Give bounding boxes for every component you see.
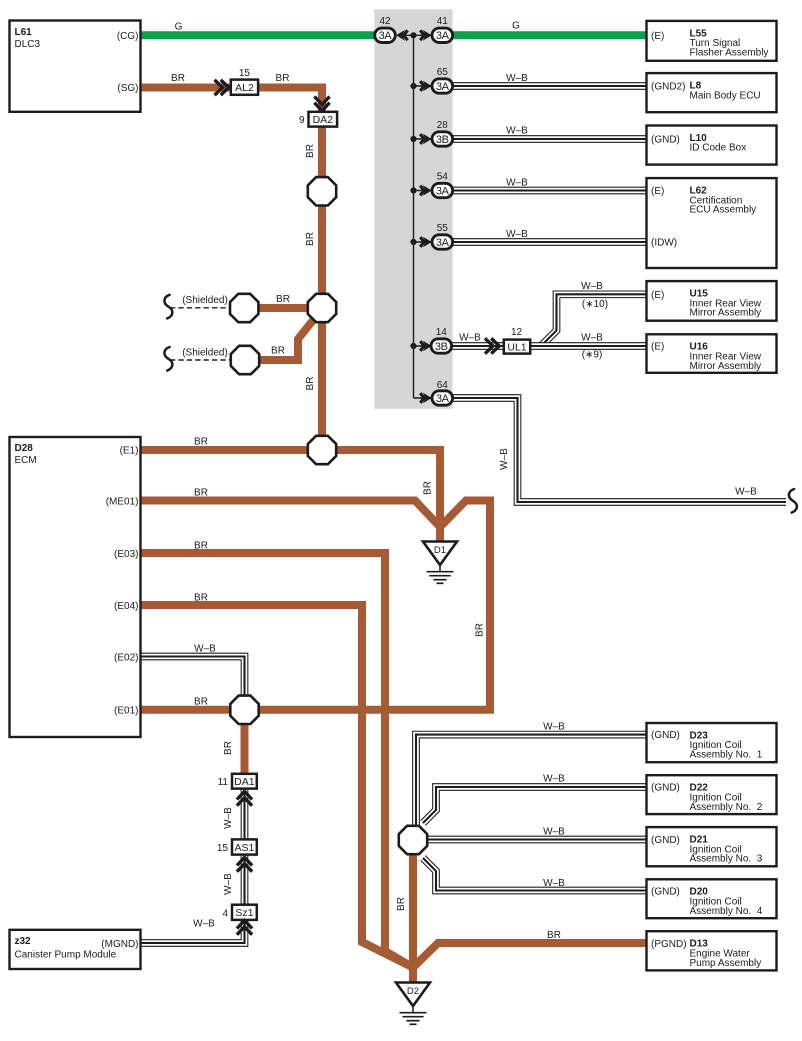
arrow into connector at y=346: [423, 341, 432, 352]
svg-text:W–B: W–B: [735, 487, 757, 498]
wire BR stub into ground D1: [436, 524, 444, 543]
svg-text:(E): (E): [651, 342, 664, 353]
svg-text:DLC3: DLC3: [15, 39, 41, 50]
chevrons into UL1: [485, 338, 493, 353]
svg-text:(MGND): (MGND): [101, 939, 138, 950]
wire BR ignition splice to ground D2: [409, 852, 417, 983]
component D20 Ignition Coil Assembly No.4: [647, 879, 777, 918]
svg-text:(GND): (GND): [651, 835, 680, 846]
arrow into connector at y=139: [423, 134, 432, 145]
connector 65 3A: [432, 79, 453, 93]
svg-text:BR: BR: [396, 897, 407, 911]
component U16 Inner Rear View Mirror Assembly: [647, 334, 777, 373]
shield terminal 1: [230, 294, 258, 322]
splice J5 ignition coils: [399, 826, 427, 854]
svg-text:BR: BR: [276, 73, 290, 84]
svg-text:W–B: W–B: [506, 229, 528, 240]
svg-text:Assembly No. 4: Assembly No. 4: [690, 906, 763, 917]
svg-text:W–B: W–B: [499, 448, 510, 470]
ground D2: [396, 983, 430, 1007]
svg-text:14: 14: [436, 327, 448, 338]
svg-text:(E): (E): [651, 31, 664, 42]
svg-text:(∗9): (∗9): [582, 350, 603, 361]
svg-text:3A: 3A: [436, 237, 450, 249]
svg-text:W–B: W–B: [193, 919, 215, 930]
svg-text:BR: BR: [276, 294, 290, 305]
connector 54 3A: [432, 183, 453, 197]
wire W-B ignition splice to D22: [423, 787, 648, 823]
svg-text:Mirror Assembly: Mirror Assembly: [690, 361, 762, 372]
svg-text:BR: BR: [423, 481, 434, 495]
connector DA2 pin 9: [309, 112, 338, 127]
svg-text:(Shielded): (Shielded): [182, 348, 228, 359]
wire W-B ignition splice to D23: [416, 735, 648, 828]
svg-text:(GND): (GND): [651, 730, 680, 741]
wire W-B ignition splice to D20: [423, 858, 648, 891]
svg-text:BR: BR: [194, 437, 208, 448]
wire BR E01 splice to DA1: [241, 722, 249, 776]
svg-text:L61: L61: [15, 27, 33, 38]
svg-text:(E): (E): [651, 186, 664, 197]
svg-text:DA2: DA2: [313, 114, 334, 126]
arrow into connector at y=398: [423, 393, 432, 404]
wire W-B ECM E02 to E01 splice: [139, 657, 245, 699]
svg-text:W–B: W–B: [581, 333, 603, 344]
component L10 ID Code Box: [647, 126, 777, 165]
wire BR from DLC3 SG via AL2 to DA2: [139, 88, 322, 114]
svg-text:ECU Assembly: ECU Assembly: [690, 205, 757, 216]
svg-text:(GND): (GND): [651, 887, 680, 898]
wire G from connector 41 to L55: [450, 31, 648, 39]
svg-text:3A: 3A: [436, 185, 450, 197]
svg-text:(Shielded): (Shielded): [182, 295, 228, 306]
wire BR splice J2 to splice J3: [318, 320, 326, 440]
connector 14 3B: [431, 339, 452, 353]
splice J3 on E1: [308, 436, 336, 464]
chevrons into Sz1: [237, 921, 252, 929]
svg-text:15: 15: [217, 843, 229, 854]
svg-text:BR: BR: [194, 541, 208, 552]
connector 42 3A: [375, 28, 396, 42]
svg-text:BR: BR: [305, 232, 316, 246]
wire W-B ignition splice to D21: [426, 836, 648, 844]
svg-text:(E03): (E03): [114, 549, 138, 560]
chevrons into DA2: [314, 97, 329, 105]
svg-text:55: 55: [437, 223, 449, 234]
svg-text:42: 42: [379, 16, 391, 27]
svg-text:64: 64: [437, 380, 449, 391]
wire BR shielded branch 2: [256, 319, 314, 360]
arrow into connector at y=86: [423, 81, 432, 92]
svg-text:BR: BR: [547, 930, 561, 941]
svg-text:3B: 3B: [435, 341, 448, 353]
svg-text:Pump Assembly: Pump Assembly: [690, 958, 762, 969]
connector DA1 pin 11: [232, 774, 257, 789]
svg-text:BR: BR: [475, 623, 486, 637]
splice J2: [308, 294, 336, 322]
component U15 Inner Rear View Mirror Assembly: [647, 281, 777, 321]
svg-text:BR: BR: [194, 697, 208, 708]
svg-text:Assembly No. 3: Assembly No. 3: [690, 854, 763, 865]
wire BR ECM E04 to ground D2: [139, 605, 413, 968]
svg-text:W–B: W–B: [506, 73, 528, 84]
wire BR ECM ME01 to ground D1 and via E01 loop: [139, 501, 490, 710]
svg-text:3A: 3A: [436, 81, 450, 93]
wire BR ECM E1 to ground D1: [139, 450, 440, 528]
svg-text:W–B: W–B: [581, 281, 603, 292]
component z32 Canister Pump Module: [10, 930, 141, 969]
shield terminal 2: [231, 346, 259, 374]
svg-text:G: G: [175, 22, 183, 33]
splice J4 on E01: [230, 696, 258, 724]
connector Sz1 pin 4: [232, 905, 257, 920]
connector AL2 pin 15: [231, 80, 258, 95]
continuation squiggle shielded 2: [164, 347, 172, 371]
svg-text:(∗10): (∗10): [582, 299, 608, 310]
svg-text:AL2: AL2: [235, 82, 254, 94]
svg-text:BR: BR: [194, 488, 208, 499]
wire W-B connector 14 via UL1 to U16: [450, 342, 648, 350]
component L8 Main Body ECU: [647, 73, 777, 112]
wire BR splice J1 to splice J2: [318, 203, 326, 297]
svg-text:BR: BR: [171, 73, 185, 84]
connector 55 3A: [432, 235, 453, 249]
svg-text:D28: D28: [15, 443, 34, 454]
chevrons into DA1: [237, 792, 252, 800]
svg-text:UL1: UL1: [507, 341, 526, 353]
svg-text:BR: BR: [223, 741, 234, 755]
svg-text:12: 12: [511, 327, 523, 338]
component D22 Ignition Coil Assembly No.2: [647, 775, 777, 814]
arrow into connector 42: [396, 30, 405, 41]
svg-text:Sz1: Sz1: [235, 907, 253, 919]
band junction dots: [410, 32, 416, 38]
svg-text:41: 41: [437, 16, 449, 27]
svg-text:4: 4: [222, 908, 228, 919]
svg-text:(E02): (E02): [114, 653, 138, 664]
svg-text:Assembly No. 2: Assembly No. 2: [690, 802, 763, 813]
svg-text:G: G: [512, 21, 520, 32]
chevrons into AL2: [215, 80, 223, 95]
svg-text:ECM: ECM: [15, 455, 37, 466]
svg-text:(SG): (SG): [117, 83, 138, 94]
svg-text:BR: BR: [194, 593, 208, 604]
shielded lead 2 dashed: [170, 359, 232, 361]
svg-text:3A: 3A: [379, 30, 393, 42]
svg-text:W–B: W–B: [223, 873, 234, 895]
connector 28 3B: [432, 132, 453, 146]
wire W-B AS1 to Sz1: [241, 853, 249, 906]
wire BR D13 PGND to ground D2: [413, 943, 648, 968]
connector 41 3A: [432, 28, 453, 42]
component D13 Engine Water Pump Assembly: [647, 931, 777, 970]
arrow into connector at y=190.5: [423, 185, 432, 196]
chevrons into AS1: [237, 858, 252, 866]
svg-text:3A: 3A: [436, 30, 450, 42]
svg-text:(E1): (E1): [120, 446, 139, 457]
svg-text:(PGND): (PGND): [651, 939, 687, 950]
svg-text:(E04): (E04): [114, 601, 138, 612]
band bus line: [413, 35, 415, 398]
svg-text:9: 9: [299, 115, 305, 126]
wire W-B DA1 to AS1: [241, 786, 249, 841]
svg-text:Assembly No. 1: Assembly No. 1: [690, 750, 763, 761]
svg-text:W–B: W–B: [543, 878, 565, 889]
svg-text:D1: D1: [434, 545, 446, 556]
svg-text:65: 65: [437, 67, 449, 78]
connector AS1 pin 15: [232, 839, 257, 854]
svg-text:z32: z32: [15, 936, 32, 947]
arrow into connector 41: [423, 30, 432, 41]
wire W-B connector 54 to L62 E: [450, 187, 648, 195]
svg-text:3A: 3A: [436, 393, 450, 405]
svg-text:Main Body ECU: Main Body ECU: [690, 90, 761, 101]
wire W-B connector 55 to L62 IDW: [450, 238, 648, 246]
continuation squiggle shielded 1: [164, 295, 172, 319]
wire W-B connector 28 to L10: [450, 135, 648, 143]
svg-text:W–B: W–B: [543, 774, 565, 785]
component L55 Turn Signal Flasher Assembly: [647, 21, 777, 61]
svg-text:W–B: W–B: [543, 826, 565, 837]
wire G from DLC3 CG to connector 42: [139, 31, 378, 39]
svg-text:W–B: W–B: [459, 332, 481, 343]
component L61 DLC3: [10, 21, 141, 112]
wire W-B connector 65 to L8: [450, 82, 648, 90]
wire W-B connector 64 to right edge: [450, 398, 786, 502]
svg-text:3B: 3B: [436, 134, 449, 146]
svg-text:(E01): (E01): [114, 706, 138, 717]
splice J1: [308, 177, 336, 205]
svg-text:Mirror Assembly: Mirror Assembly: [690, 308, 762, 319]
svg-text:D2: D2: [407, 986, 419, 997]
connector shield band 3A/3B: [374, 9, 452, 409]
svg-text:DA1: DA1: [234, 776, 255, 788]
component D23 Ignition Coil Assembly No.1: [647, 723, 777, 762]
svg-text:(CG): (CG): [117, 31, 139, 42]
component D21 Ignition Coil Assembly No.3: [647, 827, 777, 866]
svg-text:(ME01): (ME01): [106, 497, 139, 508]
svg-text:(E): (E): [651, 290, 664, 301]
svg-text:ID Code Box: ID Code Box: [690, 143, 747, 154]
svg-text:W–B: W–B: [223, 807, 234, 829]
wire W-B Sz1 to z32 MGND: [139, 918, 245, 943]
wire BR DA2 to splice J1: [318, 125, 326, 180]
svg-text:W–B: W–B: [506, 178, 528, 189]
shielded lead 1 dashed: [170, 307, 231, 309]
svg-text:W–B: W–B: [194, 644, 216, 655]
svg-text:W–B: W–B: [543, 722, 565, 733]
svg-text:Canister Pump Module: Canister Pump Module: [15, 950, 117, 961]
connector 64 3A: [432, 391, 453, 405]
arrow into connector at y=242: [423, 237, 432, 248]
svg-text:BR: BR: [271, 345, 285, 356]
svg-text:(GND): (GND): [651, 783, 680, 794]
svg-text:11: 11: [218, 777, 229, 788]
svg-text:BR: BR: [305, 144, 316, 158]
component D28 ECM: [10, 437, 141, 737]
continuation squiggle right edge W-B: [789, 489, 797, 513]
svg-text:Flasher Assembly: Flasher Assembly: [690, 48, 769, 59]
connector UL1 pin 12: [504, 340, 530, 354]
wire W-B branch UL1 to U15: [541, 294, 648, 346]
wire BR shielded branch 1: [256, 304, 311, 312]
ground D1: [423, 542, 457, 566]
svg-text:W–B: W–B: [506, 126, 528, 137]
component L62 Certification ECU Assembly: [647, 178, 777, 268]
svg-text:AS1: AS1: [234, 842, 254, 854]
svg-text:(GND2): (GND2): [651, 82, 685, 93]
svg-text:(IDW): (IDW): [651, 238, 677, 249]
svg-text:15: 15: [239, 68, 251, 79]
svg-text:(GND): (GND): [651, 134, 680, 145]
svg-text:28: 28: [437, 120, 449, 131]
svg-text:BR: BR: [305, 377, 316, 391]
wire BR ECM E03 to ground D2: [139, 553, 413, 968]
svg-text:54: 54: [437, 172, 449, 183]
